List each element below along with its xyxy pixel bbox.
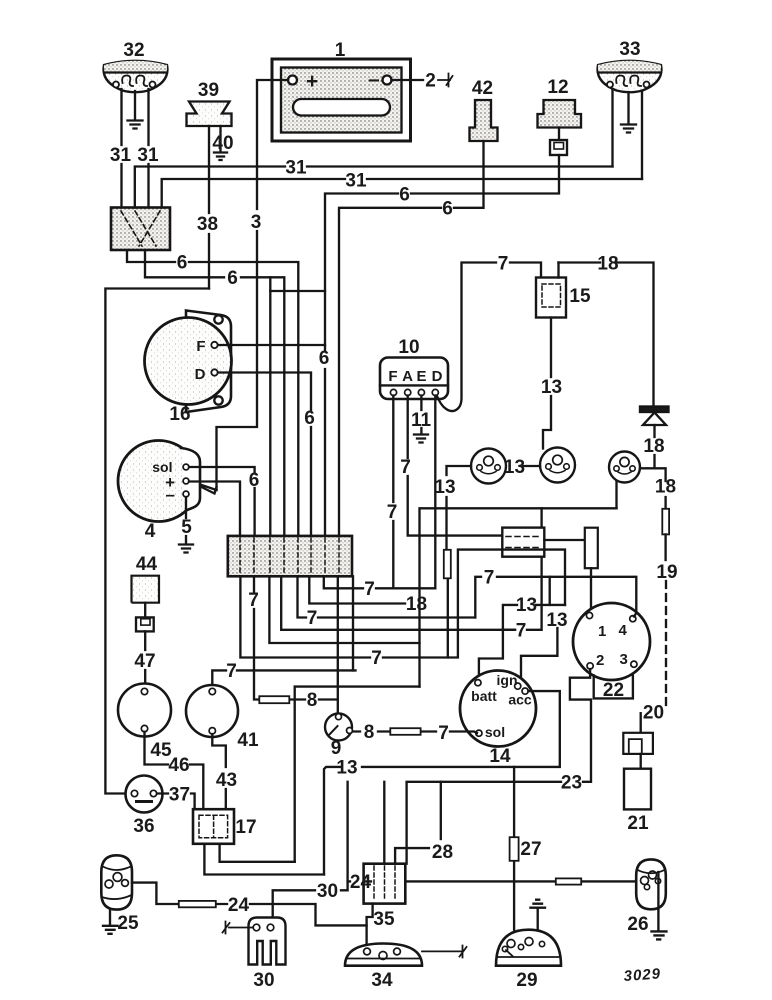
wire 6 (connector 42 feed) xyxy=(339,141,484,536)
connector 42 xyxy=(470,78,498,141)
svg-text:7: 7 xyxy=(248,590,259,611)
wire (lamp 33 right lead) xyxy=(641,91,643,180)
wire 6 (dynamo F to lamp-12 run) xyxy=(218,344,325,346)
svg-text:1: 1 xyxy=(598,623,606,640)
svg-text:46: 46 xyxy=(168,755,189,776)
ground (lamp 33 centre lead) xyxy=(621,92,636,133)
lamp 45 xyxy=(118,684,172,762)
svg-text:28: 28 xyxy=(432,842,453,863)
svg-text:22: 22 xyxy=(603,680,624,701)
distributor cap bracket 22 xyxy=(594,674,633,701)
svg-text:6: 6 xyxy=(249,470,260,491)
fuse block A xyxy=(502,528,585,557)
wire 7 (to distributor terminal 4) xyxy=(475,568,636,618)
wire (strip to starter switch 9 top) xyxy=(337,576,339,713)
wire 7 (connector strip to junction) xyxy=(298,576,476,629)
wire 38 (horn to horn button circuit) xyxy=(197,126,218,289)
svg-text:42: 42 xyxy=(472,78,493,99)
svg-text:6: 6 xyxy=(177,253,188,274)
wire 7 (stub to ignition feed) xyxy=(503,508,542,641)
svg-text:A: A xyxy=(402,368,413,385)
lamp 25 (side lamp) xyxy=(101,855,139,934)
wire 13 (ignition acc to box 35 run) xyxy=(324,691,560,874)
svg-text:30: 30 xyxy=(317,881,338,902)
svg-text:24: 24 xyxy=(228,895,250,916)
svg-text:27: 27 xyxy=(520,839,541,860)
svg-text:18: 18 xyxy=(597,254,618,275)
distributor 22 xyxy=(573,603,650,680)
svg-text:3: 3 xyxy=(620,651,628,668)
svg-text:18: 18 xyxy=(406,594,427,615)
svg-text:6: 6 xyxy=(304,408,315,429)
lamp 29 (panel lamp) xyxy=(496,930,561,991)
wire (connector strip to lamp 41 junction) xyxy=(352,576,354,670)
svg-text:35: 35 xyxy=(373,909,395,930)
svg-text:21: 21 xyxy=(627,813,649,834)
warning bulb (right) xyxy=(609,452,640,483)
ignition switch 14 xyxy=(460,671,536,768)
svg-text:2: 2 xyxy=(596,652,604,669)
wire 37 (horn button to relay 17) xyxy=(157,785,195,810)
svg-text:9: 9 xyxy=(331,738,342,759)
svg-text:acc: acc xyxy=(508,692,532,708)
wire 13 (to ignition ign terminal) xyxy=(519,610,568,685)
svg-text:4: 4 xyxy=(619,622,628,639)
wire (control box D lead down) xyxy=(434,396,436,589)
wire (horn button run: horn 38 to lamp 36) xyxy=(105,289,209,794)
svg-text:D: D xyxy=(432,368,443,385)
svg-text:24: 24 xyxy=(350,872,372,893)
svg-text:40: 40 xyxy=(212,133,233,154)
svg-text:44: 44 xyxy=(136,554,158,575)
svg-text:13: 13 xyxy=(434,477,455,498)
svg-text:7: 7 xyxy=(387,502,398,523)
wire 13 (component 15 to warning bulb) xyxy=(541,318,562,449)
wire 2 (battery negative lead with connector) xyxy=(392,71,453,92)
lamp 41 xyxy=(186,685,259,751)
ground 5 (starter negative) xyxy=(179,497,193,553)
wire 27 (acc run to lamp 29 with suppressor) xyxy=(510,767,542,930)
svg-text:D: D xyxy=(195,366,206,383)
lamp 34 (number plate lamp) xyxy=(345,944,422,992)
wire (to distributor terminal 1) xyxy=(549,577,551,605)
wire 7 (control box A to fuse block) xyxy=(400,396,502,536)
svg-text:18: 18 xyxy=(655,477,676,498)
svg-text:17: 17 xyxy=(235,817,256,838)
svg-text:7: 7 xyxy=(400,457,411,478)
box 35 (fuse/terminal box) xyxy=(364,864,406,930)
svg-text:7: 7 xyxy=(307,608,318,629)
svg-text:3029: 3029 xyxy=(623,965,661,985)
wire 6 (dynamo D to connector strip) xyxy=(218,373,315,536)
svg-text:7: 7 xyxy=(498,254,509,275)
connector strip (bulkhead connector) xyxy=(228,536,352,576)
svg-text:18: 18 xyxy=(643,436,664,457)
fuse B (vertical fuse box) xyxy=(585,528,598,613)
svg-text:31: 31 xyxy=(285,158,307,179)
wire 23 (distributor terminal 2 to box 35) xyxy=(407,669,591,864)
svg-text:31: 31 xyxy=(137,145,159,166)
wire 6 (fusebox right output) xyxy=(145,250,325,536)
component 15 (relay) xyxy=(536,263,591,318)
svg-text:batt: batt xyxy=(471,688,497,704)
svg-text:7: 7 xyxy=(516,621,527,642)
svg-text:41: 41 xyxy=(237,730,259,751)
svg-text:39: 39 xyxy=(198,80,219,101)
ground 11 (control box E terminal) xyxy=(411,396,432,443)
wire 6 (starter sol terminal to connector strip) xyxy=(189,467,259,536)
svg-text:F: F xyxy=(388,368,397,385)
connector (left of flasher 30) xyxy=(223,922,254,934)
wire 31 (long feed to lamp 33 left) xyxy=(135,158,613,208)
svg-text:19: 19 xyxy=(656,562,677,583)
wire 13 (between left and middle bulbs) xyxy=(504,457,540,478)
wire (starter + terminal to connector strip) xyxy=(189,482,240,536)
svg-text:20: 20 xyxy=(643,703,664,724)
headlamp 32 xyxy=(104,40,168,92)
svg-text:7: 7 xyxy=(371,648,382,669)
wire 20 (to fuel pump 21) xyxy=(641,703,664,733)
wire 28 (box 35 to junction) xyxy=(395,782,453,864)
wire 18 (flasher feed drop to junctions) xyxy=(295,687,420,862)
lamp 26 (tail lamp) xyxy=(627,859,665,935)
svg-text:38: 38 xyxy=(197,214,218,235)
switch 12 xyxy=(538,77,582,155)
svg-text:47: 47 xyxy=(134,651,155,672)
component 21 (fuel pump) xyxy=(624,754,651,834)
wire 31 (lamp 32 right lead to fusebox) xyxy=(147,89,149,208)
box 44 (junction box) xyxy=(132,554,160,603)
svg-text:E: E xyxy=(416,368,426,385)
starter motor 4 xyxy=(118,441,200,543)
wire 31 (long feed to lamp 33 right) xyxy=(162,171,642,208)
dynamo 16 xyxy=(145,311,232,426)
wire (lamp 33 left lead) xyxy=(611,91,613,167)
svg-text:7: 7 xyxy=(364,579,375,600)
svg-text:29: 29 xyxy=(516,970,537,991)
wire 43 (lamp 41 to relay 17) xyxy=(212,734,237,809)
svg-text:6: 6 xyxy=(319,348,330,369)
wire 18 (diode to warning lamp row) xyxy=(643,425,664,468)
wire 46 (lamp 45 to relay 17) xyxy=(145,732,204,809)
svg-text:7: 7 xyxy=(226,661,237,682)
wire 18 (component 15 to diode) xyxy=(559,254,654,407)
diode xyxy=(640,407,669,426)
svg-text:10: 10 xyxy=(398,337,419,358)
svg-text:4: 4 xyxy=(145,521,156,542)
svg-text:–: – xyxy=(368,68,380,91)
wire 7 (connector strip to junction 657) xyxy=(240,550,565,669)
svg-text:15: 15 xyxy=(569,286,591,307)
ground 40 (horn) xyxy=(212,126,233,160)
svg-text:25: 25 xyxy=(117,913,139,934)
starter switch 9 xyxy=(325,714,353,760)
ground (lamp 25) xyxy=(103,910,118,934)
wire 7 (control box F lead) xyxy=(387,396,398,589)
wire 6 (fusebox left output) xyxy=(127,250,298,536)
svg-text:31: 31 xyxy=(110,145,132,166)
svg-text:31: 31 xyxy=(345,171,367,192)
svg-text:30: 30 xyxy=(253,970,274,991)
wire 3 (battery positive to starter) xyxy=(191,80,288,494)
wire 8/7 (switch 9 to ignition sol terminal, with fuse) xyxy=(353,722,477,744)
svg-text:12: 12 xyxy=(547,77,568,98)
ground (lamp 26) xyxy=(652,909,667,939)
ground (lamp 29) xyxy=(531,900,546,930)
svg-text:26: 26 xyxy=(627,914,648,935)
svg-text:32: 32 xyxy=(123,40,144,61)
svg-text:8: 8 xyxy=(307,690,318,711)
wire 24 (junction to lamp 26 with fuse) xyxy=(348,872,637,893)
wire 47 (to lamp 45) xyxy=(134,631,155,688)
warning bulb (middle) xyxy=(540,448,575,483)
svg-text:37: 37 xyxy=(169,785,190,806)
wire 24 (lamp 25 through fuse to tail run) xyxy=(132,883,367,926)
fuel pump connector (above 21) xyxy=(623,733,653,754)
svg-text:7: 7 xyxy=(484,568,495,589)
horn button 36 xyxy=(126,776,163,838)
wire (right bulb down to junction 18) xyxy=(615,482,617,509)
wire 6 (switch 12 feed) xyxy=(319,155,559,536)
wire 18 (right bulb to fuse and flasher feed 19) xyxy=(640,468,676,560)
control box 10 xyxy=(380,337,448,399)
svg-text:2: 2 xyxy=(425,71,436,92)
horn 39 xyxy=(187,80,232,126)
svg-text:3: 3 xyxy=(251,212,262,233)
svg-text:+: + xyxy=(306,70,318,93)
svg-text:7: 7 xyxy=(438,723,449,744)
wire (relay 17 right output) xyxy=(220,844,295,862)
wire (relay 17 left output) xyxy=(204,844,324,875)
svg-text:F: F xyxy=(196,338,205,355)
flasher unit 30 xyxy=(249,918,286,992)
svg-text:5: 5 xyxy=(181,517,192,538)
svg-text:34: 34 xyxy=(371,970,393,991)
svg-text:16: 16 xyxy=(169,404,190,425)
wire 19 (dashed run down right side) xyxy=(656,562,677,710)
svg-text:13: 13 xyxy=(516,595,537,616)
headlamp 33 xyxy=(598,39,662,92)
svg-text:11: 11 xyxy=(411,410,432,431)
battery 1 xyxy=(272,40,411,141)
svg-text:6: 6 xyxy=(227,268,238,289)
svg-text:8: 8 xyxy=(364,722,375,743)
wire 13 (ignition batt feed) xyxy=(479,595,565,680)
svg-text:13: 13 xyxy=(504,457,525,478)
warning bulb (left) xyxy=(471,449,506,484)
svg-text:13: 13 xyxy=(541,377,562,398)
svg-text:36: 36 xyxy=(133,816,154,837)
svg-text:14: 14 xyxy=(489,746,511,767)
ground (lamp 32 centre lead) xyxy=(128,91,143,129)
wire 7 (lamp 41 feed) xyxy=(212,661,355,688)
svg-text:ign: ign xyxy=(497,672,518,688)
relay 17 xyxy=(193,809,257,844)
svg-text:sol: sol xyxy=(485,724,505,740)
wire 30 (junction to flasher unit 30) xyxy=(273,782,348,920)
wire 13 (left bulb feed with fuse) xyxy=(434,466,471,658)
wire 7 (connector strip to control box F/D leads) xyxy=(324,576,436,600)
wire (connector strip to junction 643) xyxy=(269,576,419,643)
fusebox (dash-fuse block below lamp 32) xyxy=(111,208,170,251)
wire 7 (control box D to component 15) xyxy=(437,254,541,412)
wire 18 (cross feed: bulb row to flasher drop) xyxy=(420,508,617,686)
wire (junction to box 35 top) xyxy=(383,782,385,864)
wire 18 (connector strip to flasher drop) xyxy=(309,576,427,615)
svg-text:–: – xyxy=(166,485,175,504)
wire 31 (lamp 32 left lead to fusebox) xyxy=(120,89,122,208)
svg-text:33: 33 xyxy=(619,39,640,60)
wire (box 35 to lamp 34) xyxy=(367,904,373,944)
connector (right of lamp 34) xyxy=(422,946,467,958)
svg-text:23: 23 xyxy=(561,773,582,794)
wire 7 (connector strip to ignition feed) xyxy=(281,576,515,630)
svg-text:43: 43 xyxy=(216,770,237,791)
svg-text:6: 6 xyxy=(442,199,453,220)
svg-text:1: 1 xyxy=(335,40,346,61)
svg-text:6: 6 xyxy=(399,185,410,206)
wire 8 (strip feed through fuse to starter switch 9) xyxy=(248,576,338,711)
svg-text:13: 13 xyxy=(546,610,567,631)
svg-text:13: 13 xyxy=(336,758,357,779)
connector (below 44) xyxy=(136,603,154,632)
